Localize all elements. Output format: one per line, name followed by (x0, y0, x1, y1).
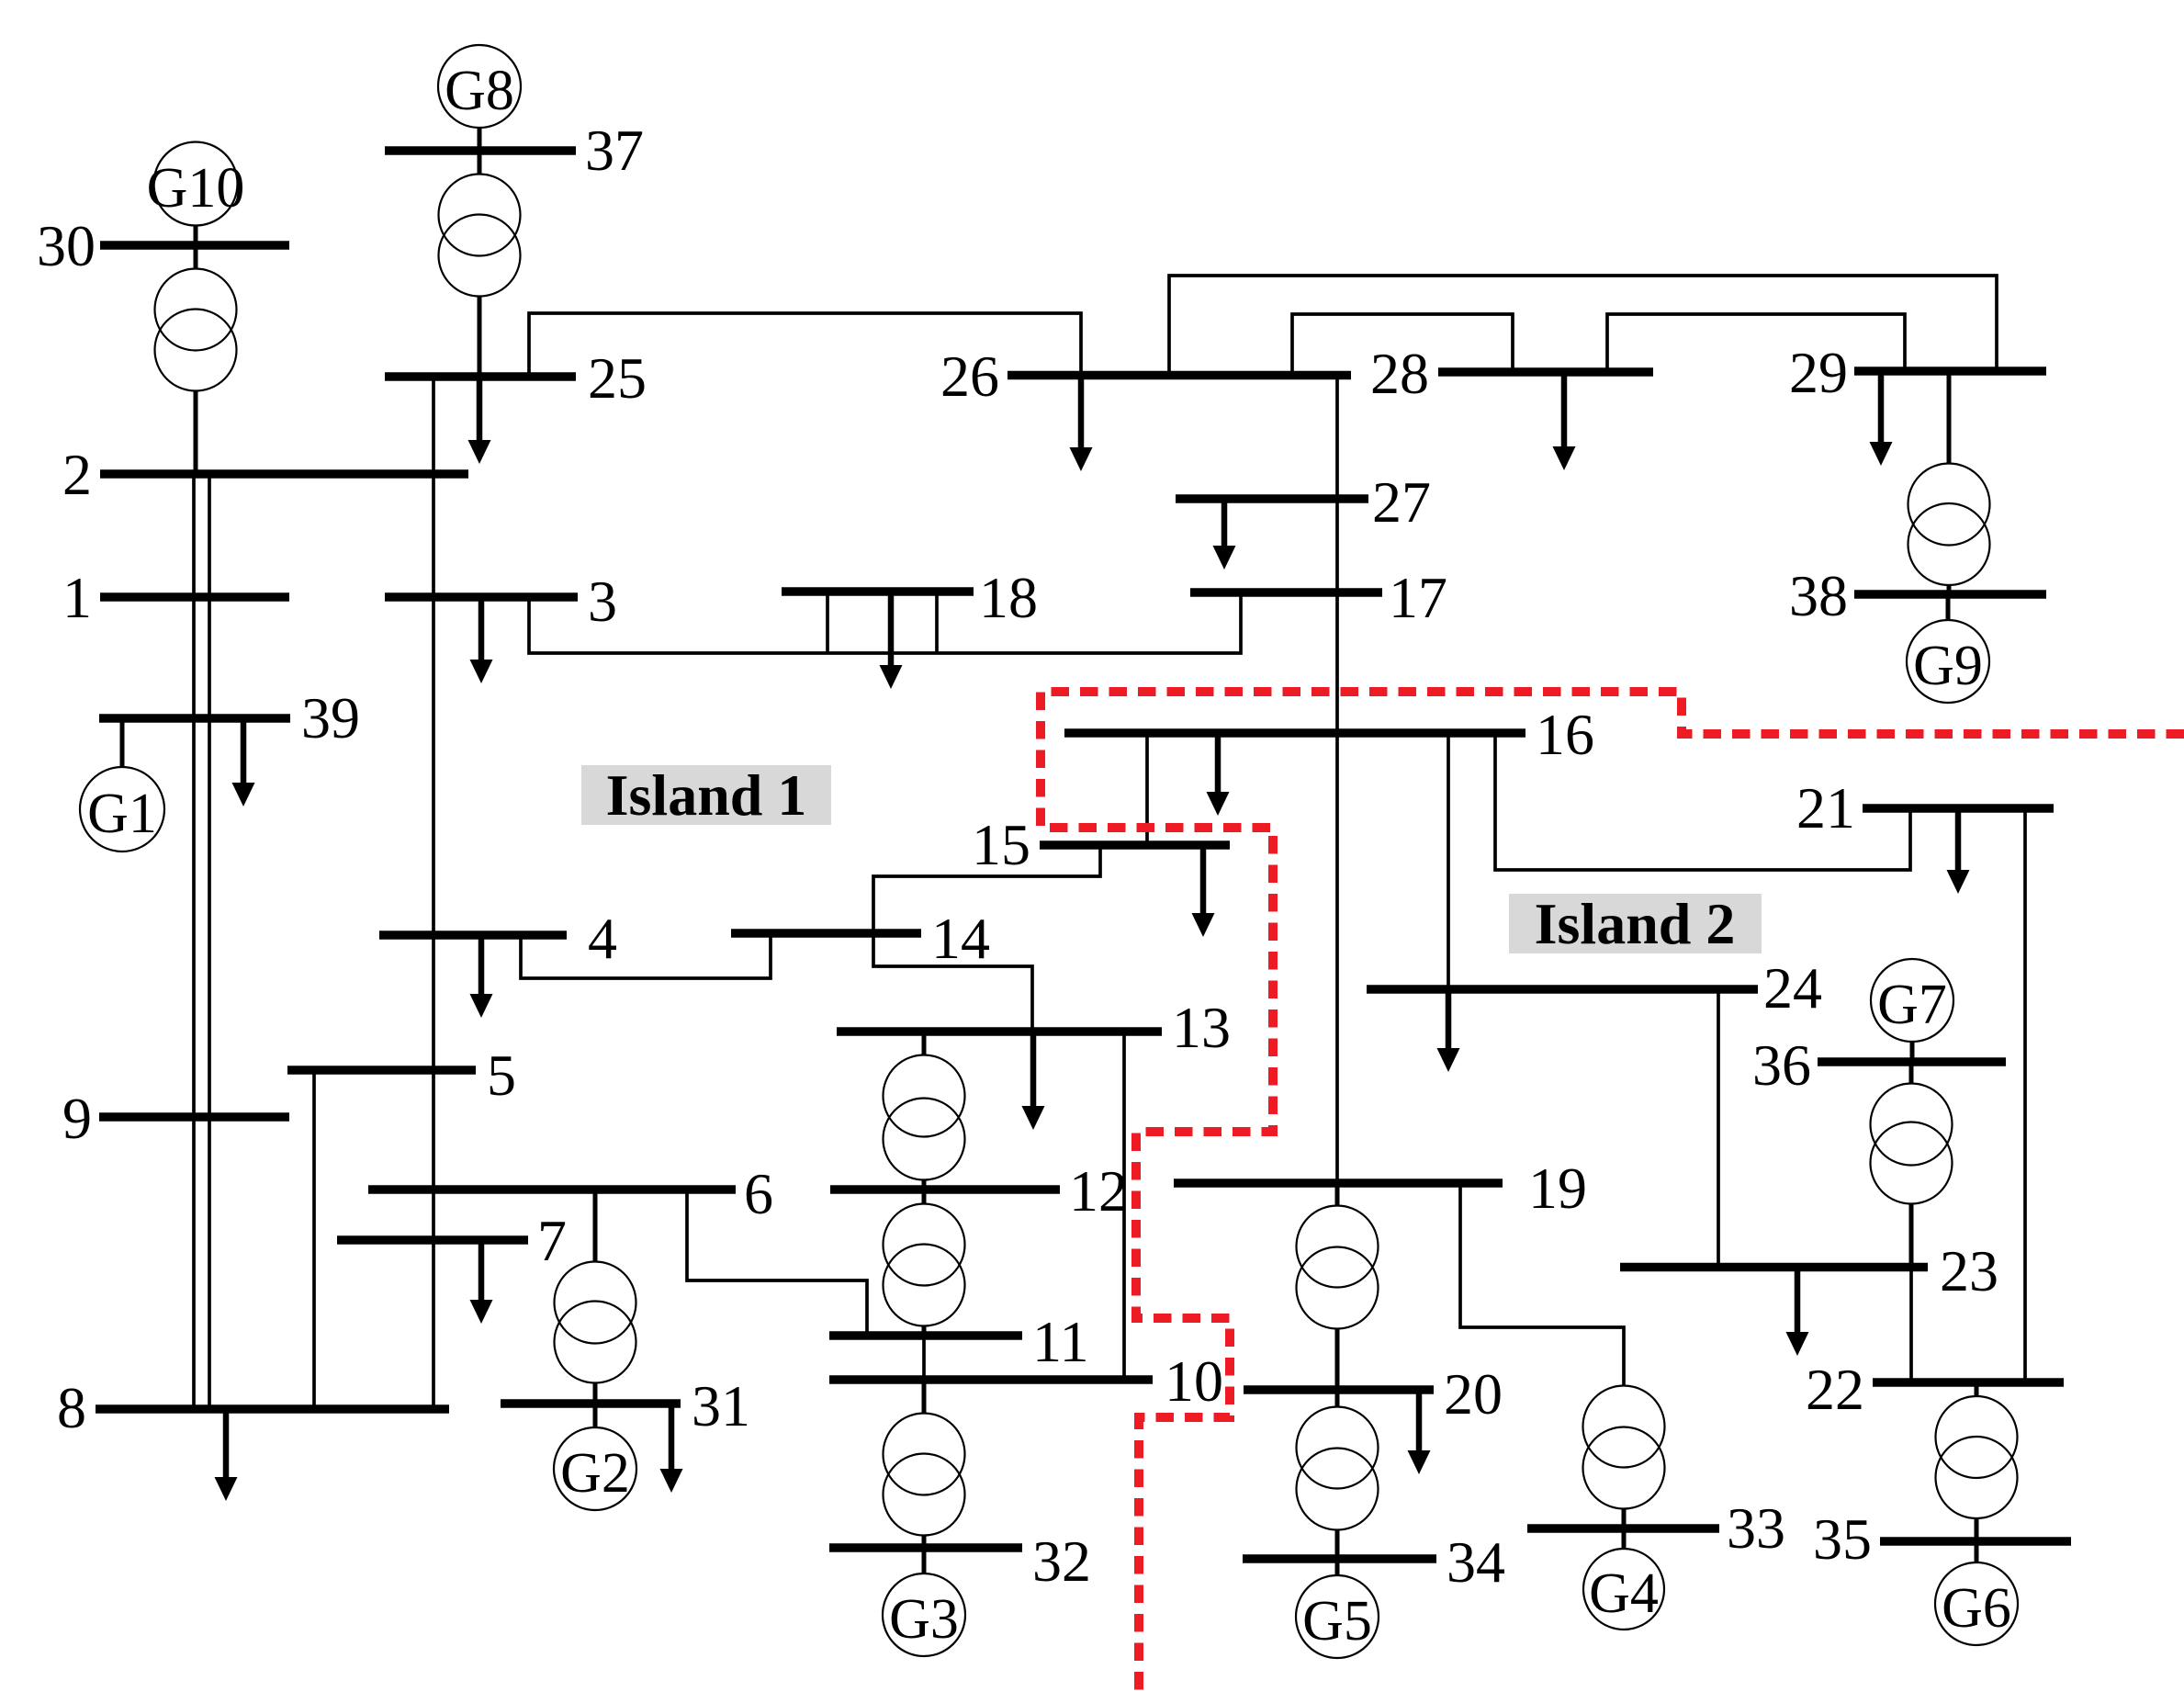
bus 22 (1806, 1357, 2064, 1422)
svg-text:19: 19 (1528, 1156, 1587, 1221)
generator G10 (147, 142, 245, 246)
svg-text:31: 31 (692, 1373, 750, 1438)
bus 7 (337, 1208, 567, 1273)
svg-text:11: 11 (1032, 1309, 1089, 1374)
svg-text:34: 34 (1447, 1529, 1505, 1595)
svg-text:23: 23 (1940, 1238, 1998, 1303)
bus 8 (57, 1375, 449, 1440)
bus 17 (1190, 565, 1447, 630)
bus 25 (385, 345, 647, 411)
svg-text:6: 6 (744, 1161, 773, 1226)
load arrow at bus 26 (1070, 376, 1093, 472)
svg-text:37: 37 (585, 118, 644, 183)
svg-text:36: 36 (1752, 1032, 1811, 1098)
load arrow at bus 21 (1947, 808, 1970, 894)
generator G8 (438, 45, 521, 151)
transformer 19-33 (G4 step-up) (1583, 1385, 1665, 1528)
transformer 19-20 (1297, 1183, 1379, 1390)
wire 25-26 (529, 313, 1081, 377)
load arrow at bus 3 (470, 597, 493, 683)
label Island 2 (1509, 891, 1762, 956)
bus 4 (379, 906, 617, 971)
bus 20 (1244, 1361, 1503, 1427)
svg-text:G10: G10 (147, 157, 245, 220)
load arrow at bus 7 (470, 1240, 493, 1324)
svg-text:35: 35 (1813, 1506, 1872, 1572)
svg-text:5: 5 (487, 1043, 516, 1108)
wire 26-27-17-16-19 (1335, 376, 1339, 1184)
bus 15 (972, 812, 1230, 877)
svg-text:Island 1: Island 1 (606, 762, 807, 828)
wire 2-1-39-9-8 left (192, 474, 196, 1409)
bus 39 (99, 685, 360, 750)
bus 23 (1620, 1238, 1998, 1303)
svg-text:13: 13 (1172, 995, 1231, 1060)
transformer 37-25 (G8 step-up) (439, 151, 521, 377)
bus 30 (37, 213, 289, 278)
generator G3 (883, 1548, 965, 1656)
load arrow at bus 4 (470, 935, 493, 1018)
wire 21-22 (2023, 808, 2027, 1382)
svg-text:G4: G4 (1589, 1562, 1659, 1625)
wire 18 tap b (935, 592, 939, 653)
svg-text:G9: G9 (1913, 635, 1983, 697)
wire 11-10 (922, 1336, 926, 1380)
wire 24-23 (1717, 989, 1720, 1268)
wire 5-8 (312, 1070, 316, 1409)
load arrow at bus 15 (1192, 845, 1215, 937)
load arrow at bus 16 (1207, 733, 1230, 816)
transformer 13-12 (884, 1032, 965, 1190)
bus 1 (62, 565, 289, 630)
svg-text:G6: G6 (1942, 1577, 2011, 1640)
load arrow at bus 18 (880, 592, 903, 689)
svg-text:G2: G2 (560, 1442, 630, 1505)
wire 4-14 (521, 933, 771, 978)
bus 32 (829, 1528, 1091, 1594)
load arrow at bus 31 (660, 1404, 683, 1493)
svg-text:29: 29 (1789, 340, 1848, 405)
bus 2 (62, 442, 468, 507)
svg-text:24: 24 (1763, 955, 1822, 1021)
svg-text:16: 16 (1536, 702, 1594, 767)
generator G1 (80, 718, 164, 851)
load arrow at bus 13 (1022, 1032, 1045, 1130)
svg-text:G8: G8 (445, 60, 514, 122)
svg-text:21: 21 (1796, 775, 1855, 840)
wire 28-29 (1607, 314, 1905, 372)
svg-text:Island 2: Island 2 (1535, 891, 1736, 956)
bus 28 (1370, 341, 1653, 406)
transformer 6-31 (G2 step-up) (555, 1190, 636, 1404)
bus 11 (829, 1309, 1089, 1374)
generator G5 (1296, 1559, 1379, 1658)
svg-text:17: 17 (1389, 565, 1447, 630)
svg-text:G1: G1 (87, 783, 157, 845)
svg-text:12: 12 (1069, 1158, 1128, 1224)
wire 15-14 (873, 845, 1100, 933)
bus 9 (62, 1086, 289, 1151)
bus 27 (1176, 469, 1431, 535)
transformer 12-11 (884, 1190, 965, 1336)
wire 14-13 (873, 933, 1032, 1032)
wire 16-21 (1495, 733, 1910, 870)
bus 3 (385, 569, 617, 634)
generator G4 (1583, 1528, 1664, 1630)
svg-text:20: 20 (1444, 1361, 1503, 1427)
bus 34 (1243, 1529, 1505, 1595)
generator G6 (1935, 1541, 2018, 1645)
svg-text:9: 9 (62, 1086, 92, 1151)
transformer 10-32 (G3 step-up) (884, 1380, 965, 1548)
svg-text:32: 32 (1032, 1528, 1091, 1594)
bus 13 (837, 995, 1231, 1060)
wire 2-1-39-9-8 right (208, 474, 211, 1409)
svg-text:18: 18 (979, 565, 1038, 630)
svg-text:33: 33 (1727, 1495, 1785, 1561)
svg-text:15: 15 (972, 812, 1030, 877)
svg-text:25: 25 (588, 345, 647, 411)
bus 6 (368, 1161, 773, 1226)
svg-text:38: 38 (1789, 563, 1848, 628)
svg-text:G5: G5 (1302, 1590, 1372, 1652)
svg-text:7: 7 (537, 1208, 567, 1273)
generator G2 (554, 1404, 636, 1510)
transformer 22-35 (G6 step-up) (1936, 1382, 2018, 1541)
bus 26 (940, 344, 1351, 409)
wire 6-11 (687, 1190, 867, 1336)
svg-text:27: 27 (1372, 469, 1431, 535)
generator G9 (1907, 594, 1989, 703)
bus 19 (1174, 1156, 1587, 1221)
bus 18 (782, 565, 1038, 630)
bus 21 (1796, 775, 2054, 840)
load arrow at bus 28 (1553, 372, 1576, 470)
bus 5 (287, 1043, 516, 1108)
bus 37 (385, 118, 644, 183)
island boundary (red dashed separation line) (1041, 692, 2184, 1691)
bus 14 (731, 906, 990, 971)
wire 16-24 (1447, 733, 1450, 989)
generator G7 (1871, 959, 1953, 1062)
load arrow at bus 8 (215, 1409, 238, 1501)
bus 12 (830, 1158, 1128, 1224)
transformer 20-34 (G5 step-up) (1297, 1390, 1379, 1559)
transformer 29-38 (G9 step-up) (1908, 371, 1990, 594)
svg-text:3: 3 (588, 569, 617, 634)
load arrow at bus 25 (468, 377, 491, 464)
wire 26-29 (1169, 276, 1997, 376)
svg-text:1: 1 (62, 565, 92, 630)
svg-text:39: 39 (301, 685, 360, 750)
wire 25-2-3-4-5-6-7-8 (432, 377, 435, 1409)
bus 33 (1527, 1495, 1785, 1561)
bus 35 (1813, 1506, 2071, 1572)
svg-text:2: 2 (62, 442, 92, 507)
bus 38 (1789, 563, 2046, 628)
svg-text:30: 30 (37, 213, 96, 278)
label Island 1 (581, 762, 831, 828)
bus 24 (1367, 955, 1822, 1021)
svg-text:14: 14 (931, 906, 990, 971)
svg-text:G7: G7 (1877, 974, 1947, 1036)
wire 19-33 (1460, 1183, 1624, 1385)
svg-text:28: 28 (1370, 341, 1429, 406)
load arrow at bus 23 (1786, 1268, 1809, 1357)
load arrow at bus 29 (1870, 371, 1893, 466)
load arrow at bus 20 (1408, 1390, 1431, 1474)
transformer 30-2 (G10 step-up) (155, 245, 237, 474)
wire 16-15 (1145, 733, 1149, 845)
svg-text:22: 22 (1806, 1357, 1864, 1422)
wire 26-28 (1292, 314, 1513, 376)
bus 10 (829, 1348, 1223, 1414)
svg-text:10: 10 (1165, 1348, 1223, 1414)
load arrow at bus 39 (232, 718, 255, 806)
load arrow at bus 24 (1437, 989, 1460, 1072)
wire 3-18-17 (529, 592, 1241, 653)
svg-text:G3: G3 (889, 1588, 959, 1651)
wire 13-10 (1122, 1032, 1126, 1380)
transformer 36-23 (G7 step-up) (1871, 1062, 1953, 1268)
svg-text:4: 4 (588, 906, 617, 971)
wire 18 tap a (826, 592, 829, 653)
load arrow at bus 27 (1213, 499, 1236, 570)
svg-text:8: 8 (57, 1375, 86, 1440)
wire 23-22 (1909, 1268, 1913, 1383)
svg-text:26: 26 (940, 344, 999, 409)
bus 29 (1789, 340, 2046, 405)
bus 36 (1752, 1032, 2006, 1098)
bus 16 (1064, 702, 1594, 767)
bus 31 (501, 1373, 750, 1438)
